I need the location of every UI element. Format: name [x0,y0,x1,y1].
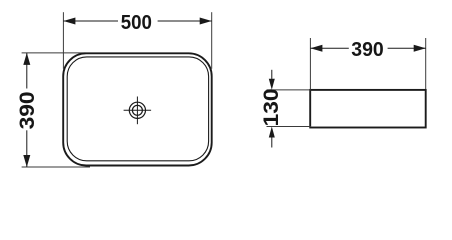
faucet hole mark inner circle [132,105,142,115]
svg-text:130: 130 [260,88,283,126]
arrow 390 down [23,155,30,167]
basin inner rim line [67,57,208,161]
extension line 390 top view-left [309,38,311,89]
arrow 500 right [200,18,212,25]
extension line 130 top [267,89,312,91]
extension line 500 left [62,12,64,68]
extension line 390 top-left [22,52,86,54]
basin outer outline [63,53,212,165]
dimension line 500 [63,20,118,22]
dimension line 390 top [310,47,348,49]
arrow 130 down [269,79,275,90]
side view rectangle [310,90,426,128]
arrow 130 up [269,127,275,138]
arrow 390 top left [310,45,322,52]
dimension line 390 left [26,53,28,89]
extension line 500 right [211,12,213,68]
arrow 390 top right [414,45,426,52]
crosshair horizontal [124,109,152,111]
extension line 130 bottom [267,126,312,128]
extension line 390 bottom-left [22,166,90,168]
arrow 500 left [63,18,75,25]
dimension line 130 bottom tail [271,137,273,147]
svg-text:390: 390 [16,91,39,129]
extension line 390 top view-right [425,38,427,89]
dimension line 130 top tail [271,70,273,79]
crosshair vertical [136,97,138,125]
svg-text:500: 500 [121,12,152,34]
arrow 390 up [23,53,30,65]
faucet hole mark outer circle [129,102,145,118]
svg-text:390: 390 [351,39,384,61]
